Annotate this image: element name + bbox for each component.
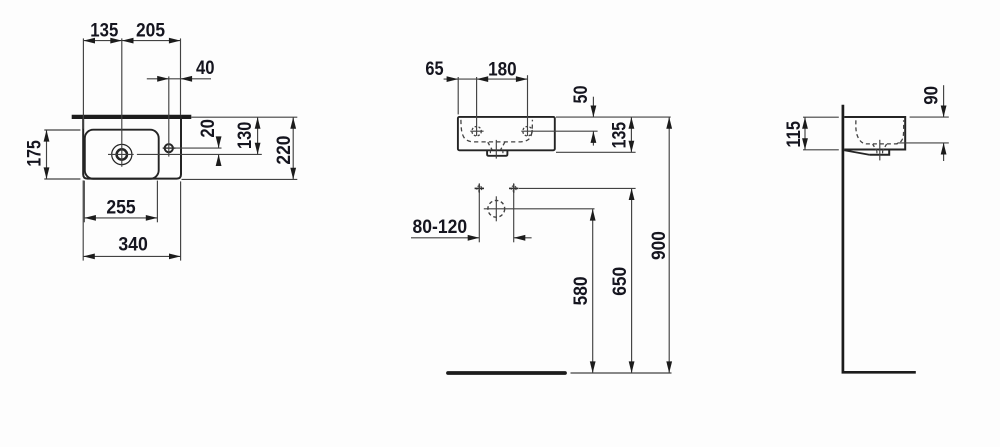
dim line 130 [255, 117, 261, 154]
dim text 20 [197, 119, 219, 138]
extension line side top right [910, 116, 949, 118]
extension line front bottom right [556, 151, 636, 153]
dim line 90 (outside arrows) [941, 85, 947, 161]
svg-text:340: 340 [118, 234, 148, 256]
dim text 255 [106, 197, 135, 219]
front view trap hidden pipe lines [490, 151, 503, 156]
dim text 580 [570, 276, 592, 305]
svg-text:180: 180 [488, 58, 517, 80]
front view basin outline [458, 117, 555, 150]
drain outer circle [112, 144, 132, 164]
extension lines 255 [84, 181, 157, 223]
dim line 40 [147, 76, 211, 82]
dim text 90 [920, 86, 942, 105]
svg-text:175: 175 [23, 140, 45, 167]
svg-text:900: 900 [648, 231, 670, 260]
dim text 650 [609, 267, 631, 296]
svg-text:650: 650 [609, 267, 631, 296]
dim text 65 [425, 58, 443, 80]
dim text 205 [136, 20, 165, 42]
side view underside taper line [844, 150, 869, 155]
dim text 175 [23, 140, 45, 167]
svg-text:40: 40 [196, 57, 215, 79]
front view drain axis [495, 140, 497, 159]
extension line fixing hole 2 down [513, 183, 515, 242]
tap hole circle [165, 144, 173, 152]
svg-text:20: 20 [197, 119, 219, 138]
dim text 130 [234, 122, 256, 149]
extension line side drain level right [897, 142, 948, 144]
dim text 40 [196, 57, 215, 79]
svg-text:205: 205 [136, 20, 165, 42]
dim line 20 (outside arrows) [216, 136, 222, 166]
fixing holes line extension to 650 dim [519, 187, 636, 189]
tap hole centerline vertical / extension for 40 dim [168, 76, 170, 156]
dim text 340 [118, 234, 148, 256]
svg-text:130: 130 [234, 122, 256, 149]
wall drain hole crosshair vertical [495, 196, 497, 221]
dim text 115 [783, 121, 805, 148]
dim line 80-120 [411, 235, 532, 241]
extension lines 175 [44, 130, 80, 179]
side view bowl hidden line [856, 120, 904, 144]
fixing hole 2 [509, 184, 518, 193]
extension line front basin left edge [457, 77, 459, 114]
side view trap profile [869, 150, 889, 155]
extension lines 115 [803, 117, 839, 150]
svg-text:220: 220 [273, 135, 295, 164]
dim text 50 [570, 85, 592, 103]
dim line 135/205 [83, 38, 180, 44]
tap hole 2 hidden circle [523, 127, 532, 136]
drain centerline horizontal [108, 153, 262, 155]
dim line 115 [802, 117, 808, 150]
svg-text:135: 135 [90, 20, 118, 42]
extension line front top right [556, 116, 671, 118]
tap hole 2 crosshair and extension to 50 dim [521, 130, 597, 132]
svg-text:115: 115 [783, 121, 805, 148]
extension line basin left edge (top) [82, 38, 84, 128]
dim line 900 [666, 117, 672, 373]
extension line tap hole 1 [476, 77, 478, 136]
svg-text:65: 65 [425, 58, 443, 80]
dim line 580 [590, 209, 596, 373]
extension line bottom right of left view [182, 178, 298, 180]
svg-text:580: 580 [570, 276, 592, 305]
dim text 180 [488, 58, 517, 80]
floor line thin extension [571, 372, 672, 374]
drain inner circle [117, 149, 127, 159]
extension line tap hole 2 [527, 75, 529, 136]
dim line 650 [629, 188, 635, 373]
dim line 340 [83, 254, 180, 260]
svg-text:50: 50 [570, 85, 592, 103]
wall drain hole hidden circle [488, 200, 505, 217]
dim line 135 front [629, 117, 635, 152]
fixing hole 1 [475, 184, 484, 193]
tap hole 1 crosshair [470, 130, 483, 132]
left view wall line [72, 115, 192, 119]
extension line top right of left view [191, 116, 297, 118]
dim text 135 front [608, 122, 630, 149]
dim text 135 [90, 20, 118, 42]
side view wall and floor [843, 105, 916, 373]
side view drain funnel hidden lines [873, 144, 887, 154]
extension line fixing hole 1 down [478, 183, 480, 242]
svg-text:80-120: 80-120 [413, 216, 468, 238]
dim line 50 (outside arrows) [591, 97, 597, 146]
side view basin profile [844, 117, 905, 150]
dim line 220 [290, 117, 296, 179]
svg-text:135: 135 [608, 122, 630, 149]
tap hole 1 hidden circle [472, 127, 481, 136]
front view trap [487, 150, 507, 155]
side view drain axis [879, 140, 881, 161]
tap hole centerline horizontal [163, 147, 222, 149]
svg-text:255: 255 [106, 197, 135, 219]
dim line 255 [84, 215, 157, 221]
left view basin outline [83, 116, 181, 179]
left view inner bowl [85, 130, 159, 179]
front view bowl hidden line [461, 120, 533, 142]
dim text 220 [273, 135, 295, 164]
svg-text:90: 90 [920, 86, 942, 105]
extension line basin right edge (top) [180, 38, 182, 115]
dim text 80-120 [413, 216, 468, 238]
extension lines 340 [83, 180, 180, 260]
floor line thick [448, 371, 565, 375]
front view drain funnel hidden lines [488, 142, 505, 150]
wall drain hole crosshair horizontal and extension to 580 dim [484, 208, 595, 210]
drain centerline vertical / extension for 135-205 dims [121, 38, 123, 166]
dim line 175 [44, 130, 50, 179]
dim text 900 [648, 231, 670, 260]
dim line 65/180 [444, 76, 528, 82]
